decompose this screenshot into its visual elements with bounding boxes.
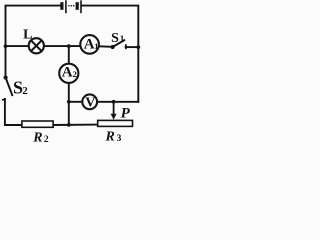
svg-text:2: 2 — [22, 85, 28, 97]
svg-text:1: 1 — [120, 34, 125, 44]
svg-text:S: S — [111, 31, 119, 46]
svg-text:A: A — [84, 37, 95, 53]
svg-text:1: 1 — [94, 42, 98, 51]
svg-text:P: P — [121, 106, 131, 122]
svg-text:2: 2 — [73, 69, 77, 79]
svg-text:2: 2 — [44, 135, 49, 145]
svg-text:R: R — [105, 130, 115, 145]
svg-text:L: L — [23, 27, 32, 42]
svg-text:3: 3 — [117, 134, 122, 144]
svg-text:R: R — [32, 131, 42, 146]
svg-text:V: V — [85, 96, 95, 111]
svg-text:A: A — [62, 65, 73, 81]
